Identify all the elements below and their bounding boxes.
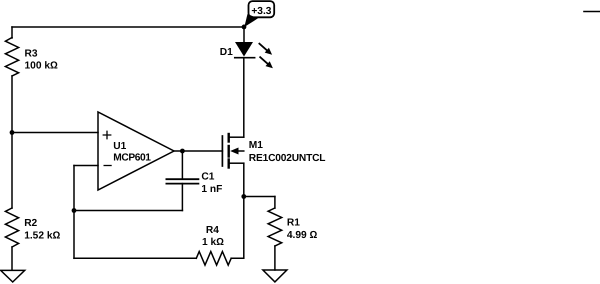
wire feedback vertical <box>73 166 75 259</box>
svg-text:C1: C1 <box>201 172 214 183</box>
node junction feedback <box>72 208 77 213</box>
LED D1 triangle <box>235 42 253 57</box>
wire left rail middle <box>11 76 13 208</box>
node junction top <box>242 25 247 30</box>
svg-text:MCP601: MCP601 <box>113 153 151 164</box>
transistor M1 body arrow head <box>230 148 238 155</box>
wire left rail upper <box>11 27 13 38</box>
svg-text:+3.3: +3.3 <box>251 6 271 17</box>
wire source node to R1 <box>244 196 275 198</box>
LED emission arrow 1 head <box>265 48 272 55</box>
resistor R2 <box>5 208 18 247</box>
svg-text:R2: R2 <box>24 218 37 229</box>
wire LED anode <box>243 27 245 42</box>
power flag tail <box>244 14 258 27</box>
ground GND left <box>1 270 25 282</box>
svg-text:D1: D1 <box>220 47 233 58</box>
svg-text:RE1C002UNTCL: RE1C002UNTCL <box>249 153 326 164</box>
wire capacitor bottom horizontal <box>74 210 182 212</box>
transistor M1 channel segments <box>227 134 229 142</box>
wire bottom feedback <box>74 257 196 259</box>
LED D1 cathode bar <box>235 57 255 59</box>
wire op-amp output to gate <box>174 150 222 152</box>
node junction output <box>180 149 185 154</box>
transistor M1 drain connection <box>230 136 244 138</box>
transistor M1 source connection <box>230 162 244 164</box>
svg-text:R3: R3 <box>25 48 38 59</box>
wire R1 to ground <box>274 246 276 270</box>
resistor R1 <box>268 208 282 246</box>
wire R2 to ground <box>11 247 13 270</box>
wire R1 top lead <box>274 197 276 209</box>
wire inverting input <box>74 165 98 167</box>
ground GND right <box>263 270 287 282</box>
LED emission arrow 1 shaft <box>259 44 266 51</box>
power flag +3.3 box <box>249 1 275 17</box>
transistor M1 gate bar <box>221 136 223 166</box>
LED emission arrow 2 head <box>266 61 273 68</box>
svg-text:R1: R1 <box>287 218 300 229</box>
wire noninverting input <box>12 132 98 134</box>
capacitor C1 <box>181 151 183 179</box>
svg-text:M1: M1 <box>249 140 263 151</box>
LED emission arrow 2 shaft <box>260 57 267 64</box>
resistor R4 <box>196 252 231 266</box>
transistor M1 body connection <box>237 150 244 152</box>
svg-text:100 kΩ: 100 kΩ <box>25 60 58 71</box>
resistor R3 <box>5 38 18 77</box>
op-amp minus symbol <box>104 165 112 167</box>
svg-text:4.99 Ω: 4.99 Ω <box>287 230 318 241</box>
svg-text:R4: R4 <box>206 225 219 236</box>
svg-text:1 kΩ: 1 kΩ <box>202 237 224 248</box>
svg-text:U1: U1 <box>113 141 126 152</box>
wire LED cathode to drain <box>243 58 245 138</box>
node junction noninverting <box>10 130 15 135</box>
node junction source <box>241 194 246 199</box>
wire source vertical <box>243 163 245 196</box>
wire R4 to source node <box>231 197 244 259</box>
svg-text:1.52 kΩ: 1.52 kΩ <box>24 230 60 241</box>
wire fragment top right <box>584 11 600 13</box>
op-amp plus symbol <box>103 131 112 140</box>
svg-text:1 nF: 1 nF <box>201 184 222 195</box>
op-amp U1 body <box>98 112 174 190</box>
wire top rail <box>12 26 244 28</box>
